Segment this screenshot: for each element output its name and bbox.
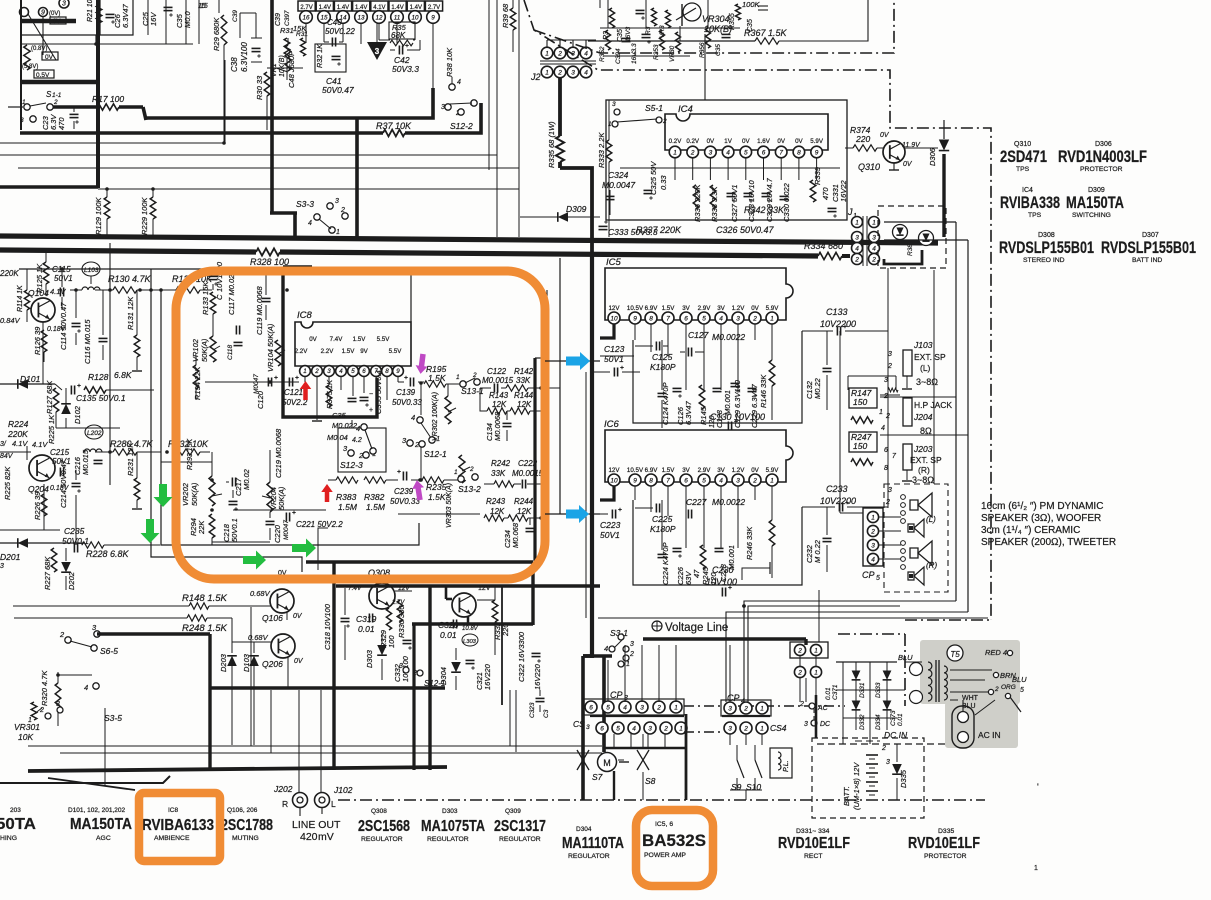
inductor L103 <box>82 262 100 276</box>
svg-text:R29 680K: R29 680K <box>212 17 221 51</box>
wire interconnect L1 <box>744 601 956 702</box>
svg-text:15: 15 <box>200 3 208 10</box>
svg-text:C326 50V0.47: C326 50V0.47 <box>716 225 775 235</box>
svg-text:16: 16 <box>302 14 310 21</box>
svg-text:C371: C371 <box>832 684 839 700</box>
wire VR1 branch <box>287 38 289 44</box>
pilot lamp P.L. <box>770 748 792 778</box>
svg-text:R144: R144 <box>514 391 534 400</box>
svg-text:7: 7 <box>666 477 670 484</box>
svg-text:3V: 3V <box>682 305 690 312</box>
node dot top-left <box>94 42 98 46</box>
jack J103 EXT SP (L) <box>903 350 912 376</box>
svg-text:(L): (L) <box>920 363 931 373</box>
svg-text:50K(A): 50K(A) <box>200 338 209 362</box>
wire J1 to speaker feeds <box>884 221 956 223</box>
svg-text:2: 2 <box>885 499 890 506</box>
wire cluster stubs <box>607 0 609 28</box>
svg-text:10.5V: 10.5V <box>627 305 644 312</box>
svg-text:68K: 68K <box>391 31 406 40</box>
svg-text:D307: D307 <box>1142 232 1159 239</box>
svg-text:EXT. SP: EXT. SP <box>910 455 942 465</box>
svg-text:1.5V: 1.5V <box>353 336 367 343</box>
svg-text:3: 3 <box>630 641 634 648</box>
svg-text:VR104 50K(A): VR104 50K(A) <box>266 323 275 372</box>
svg-text:0V: 0V <box>707 138 715 145</box>
svg-text:0.5V: 0.5V <box>36 72 50 79</box>
wire vertical x=586 <box>585 372 587 618</box>
speaker R tweeter <box>908 567 924 585</box>
wire vertical x=560 mid <box>559 258 561 514</box>
svg-text:5: 5 <box>876 575 880 582</box>
connector J2 row 2 <box>541 66 553 78</box>
wire thick IC6 pin10 lead <box>600 486 614 500</box>
svg-text:4.1V: 4.1V <box>12 439 28 448</box>
svg-text:2: 2 <box>887 363 892 370</box>
wire rows in lower orange <box>161 461 212 463</box>
svg-text:10V2200: 10V2200 <box>820 496 856 506</box>
wire IC5 pin9 riser <box>634 324 636 340</box>
svg-text:C38: C38 <box>230 57 239 72</box>
inductor L303 <box>462 634 478 646</box>
transistor diagonal (top-left) <box>28 14 56 60</box>
wire leads from IC row down <box>305 23 307 42</box>
svg-text:R30 33: R30 33 <box>255 75 264 100</box>
svg-text:3V: 3V <box>682 467 690 474</box>
svg-text:R39 68: R39 68 <box>501 3 510 28</box>
wire medium vertical x=502 <box>501 586 503 705</box>
svg-text:L: L <box>331 799 336 809</box>
svg-text:1.5K: 1.5K <box>428 373 446 383</box>
svg-text:MUTING: MUTING <box>232 835 259 842</box>
svg-text:RVD1N4003LF: RVD1N4003LF <box>1058 148 1147 166</box>
svg-text:REGULATOR: REGULATOR <box>361 836 403 843</box>
svg-text:0V: 0V <box>309 336 317 343</box>
svg-text:+: + <box>369 407 373 414</box>
svg-text:T5: T5 <box>950 650 960 659</box>
test point triangle 3 <box>367 42 387 60</box>
svg-text:22K: 22K <box>197 520 206 535</box>
svg-text:2: 2 <box>870 528 875 535</box>
svg-text:2: 2 <box>743 725 748 732</box>
svg-text:CS: CS <box>573 719 585 729</box>
wire top-left inner verticals <box>147 0 149 35</box>
svg-text:16cm (6¹/₂ ″) PM DYNAMIC: 16cm (6¹/₂ ″) PM DYNAMIC <box>981 501 1103 512</box>
svg-text:D308: D308 <box>1038 232 1055 239</box>
svg-text:M 0.22: M 0.22 <box>813 539 822 563</box>
wire thick CP3 right leg <box>685 714 688 800</box>
switch S8 (cross) <box>637 750 649 770</box>
wire vertical x=225 <box>224 60 226 143</box>
svg-text:6.3V47: 6.3V47 <box>121 3 130 28</box>
extra junction dots <box>590 380 594 384</box>
svg-text:3~8Ω: 3~8Ω <box>912 475 934 485</box>
annotation green arrow down 1 <box>154 484 173 507</box>
connector CP4 row box <box>721 700 771 716</box>
svg-text:1: 1 <box>770 477 774 484</box>
jack J102 L <box>315 793 330 808</box>
svg-text:5: 5 <box>606 704 610 711</box>
annotation magenta arrow up 2 <box>411 479 426 501</box>
svg-text:C239: C239 <box>394 487 414 496</box>
svg-text:6.9V: 6.9V <box>645 467 659 474</box>
svg-text:16V22: 16V22 <box>839 179 848 202</box>
wire thick bus top-left box top <box>20 19 76 24</box>
svg-text:4: 4 <box>881 425 885 432</box>
svg-text:C35: C35 <box>747 19 754 32</box>
svg-text:R334 680: R334 680 <box>804 241 843 251</box>
svg-text:3cm (1¹/₄ ″) CERAMIC: 3cm (1¹/₄ ″) CERAMIC <box>981 525 1080 536</box>
svg-text:mV: mV <box>318 831 334 843</box>
svg-text:4: 4 <box>726 149 730 156</box>
wire pin1 lead + cap C121 <box>260 381 299 383</box>
diode D309 on wire <box>520 216 600 218</box>
svg-text:3: 3 <box>888 487 892 494</box>
svg-text:2: 2 <box>59 630 65 639</box>
wires CP5 to speakers <box>879 516 901 518</box>
svg-text:5.5V: 5.5V <box>377 336 391 343</box>
svg-text:C355 50V0.4: C355 50V0.4 <box>374 370 383 414</box>
svg-text:2: 2 <box>656 704 661 711</box>
svg-text:3: 3 <box>736 315 740 322</box>
wire thick Q309 emitter <box>467 617 470 625</box>
svg-text:16V220: 16V220 <box>533 663 542 690</box>
svg-text:50V0.22: 50V0.22 <box>325 27 355 36</box>
capacitor C26 6.3V47 <box>106 13 115 15</box>
svg-text:1: 1 <box>456 374 460 381</box>
wire Q104 vertical <box>42 322 44 384</box>
connector CP3 row <box>585 701 597 713</box>
connector J1 pin pairs <box>852 217 863 228</box>
svg-text:TPS: TPS <box>1028 212 1042 219</box>
wire thick vertical x=430 <box>428 586 431 770</box>
svg-text:PROTECTOR: PROTECTOR <box>924 853 967 860</box>
svg-text:D332: D332 <box>859 714 866 730</box>
svg-text:4: 4 <box>872 245 876 252</box>
svg-text:R235: R235 <box>426 482 447 492</box>
svg-text:1: 1 <box>760 705 764 712</box>
wire stub verticals near C323 <box>509 690 511 746</box>
svg-text:ORG: ORG <box>1001 684 1016 691</box>
under-IC4 network wires <box>620 167 840 169</box>
svg-text:4.1V: 4.1V <box>50 287 66 296</box>
svg-text:2.9V: 2.9V <box>698 305 712 312</box>
svg-text:50V0.1: 50V0.1 <box>230 518 239 542</box>
transistor top partial <box>683 3 701 21</box>
svg-text:5.9V: 5.9V <box>766 305 780 312</box>
svg-text:C123: C123 <box>604 344 625 354</box>
svg-text:5: 5 <box>351 368 355 375</box>
svg-text:7.4V: 7.4V <box>348 585 362 592</box>
svg-text:C324: C324 <box>608 170 629 180</box>
svg-text:3: 3 <box>399 663 403 670</box>
svg-text:R339: R339 <box>813 166 822 185</box>
svg-text:R142: R142 <box>514 367 534 376</box>
svg-text:12V: 12V <box>478 585 491 592</box>
svg-text:8: 8 <box>649 477 653 484</box>
svg-text:L103: L103 <box>84 267 99 274</box>
svg-text:16V220: 16V220 <box>483 663 492 690</box>
svg-text:2: 2 <box>690 149 695 156</box>
wire y=530 stub <box>0 529 60 531</box>
svg-text:R128: R128 <box>88 372 109 382</box>
svg-text:2: 2 <box>994 686 999 693</box>
svg-text:5: 5 <box>1020 687 1024 694</box>
svg-text:S8: S8 <box>645 776 656 786</box>
svg-text:3: 3 <box>855 234 859 241</box>
under-IC6 vertical extensions <box>685 500 687 548</box>
wire audio feed horizontals <box>28 745 602 747</box>
svg-text:IC6: IC6 <box>604 419 620 430</box>
wire Q310 collector to D306 <box>905 147 938 149</box>
IC8 pins 1..9 <box>300 366 311 377</box>
wire C38 branch <box>239 13 241 38</box>
svg-text:S6-5: S6-5 <box>100 646 118 656</box>
svg-text:M0.022: M0.022 <box>332 421 358 430</box>
svg-text:3: 3 <box>871 542 875 549</box>
svg-text:50TA: 50TA <box>0 816 36 833</box>
wire thick riser x=414 <box>412 624 415 770</box>
wire into C123 under blue arrow 1 <box>545 360 600 362</box>
svg-text:150: 150 <box>853 397 867 407</box>
svg-text:C118: C118 <box>227 345 234 360</box>
svg-text:0V: 0V <box>751 305 759 312</box>
svg-text:1: 1 <box>872 219 876 226</box>
wire thick voltage bus y=639 <box>643 637 806 640</box>
svg-text:50V0.47: 50V0.47 <box>322 85 354 95</box>
wire vertical x=489 <box>488 0 490 170</box>
wire thick y=688 <box>210 686 445 689</box>
svg-text:(5.8V): (5.8V) <box>22 64 38 70</box>
wire thin y=41 with corner up at x=868 <box>588 40 755 42</box>
svg-text:Q310: Q310 <box>858 162 880 172</box>
switch S9 <box>736 745 738 760</box>
svg-text:0V: 0V <box>903 161 913 168</box>
svg-text:Q309: Q309 <box>505 808 521 815</box>
wire interconnect L3 <box>748 606 900 702</box>
svg-text:0V: 0V <box>777 138 785 145</box>
svg-text:C116 M0.015: C116 M0.015 <box>83 319 92 364</box>
wire CP3 verticals up <box>624 645 626 702</box>
resistor R32 1K (boxed) <box>315 44 346 72</box>
svg-text:C329 25V4.7: C329 25V4.7 <box>765 177 774 222</box>
svg-text:3~8Ω: 3~8Ω <box>916 377 938 387</box>
svg-text:10.5V: 10.5V <box>627 467 644 474</box>
svg-text:1: 1 <box>545 69 549 76</box>
bottom middle thick feeds <box>604 747 686 749</box>
wire bus under CP3 <box>590 715 684 717</box>
svg-text:C233: C233 <box>826 484 848 494</box>
inductor L202 <box>85 425 103 439</box>
svg-text:R31: R31 <box>280 26 294 35</box>
wire AC IN leads <box>962 700 964 711</box>
svg-text:RVD10E1LF: RVD10E1LF <box>908 835 980 852</box>
svg-text:1.2V: 1.2V <box>732 305 746 312</box>
svg-text:S3-5: S3-5 <box>104 713 122 723</box>
svg-text:9: 9 <box>815 149 819 156</box>
svg-text:0.84V: 0.84V <box>0 316 21 325</box>
wire C230 down to connector <box>818 590 820 642</box>
svg-text:L202: L202 <box>87 430 102 437</box>
svg-text:C40: C40 <box>327 18 342 27</box>
switch S7 (cross) <box>577 750 589 770</box>
svg-text:0.33: 0.33 <box>659 175 668 190</box>
svg-text:R17 100: R17 100 <box>92 94 124 104</box>
svg-text:BATT.: BATT. <box>842 786 851 806</box>
svg-text:R130 4.7K: R130 4.7K <box>108 274 152 284</box>
wire speaker feed vertical x=956 <box>955 222 957 601</box>
wire medium left bottom <box>0 776 170 783</box>
svg-text:50V1: 50V1 <box>600 530 620 540</box>
svg-text:D201: D201 <box>0 552 21 562</box>
wire thick bus A y=237 <box>0 236 938 243</box>
svg-text:WHT: WHT <box>962 695 979 702</box>
annotation green arrow right 2 <box>292 539 316 558</box>
svg-text:R225 1K: R225 1K <box>47 414 56 444</box>
svg-text:2: 2 <box>752 477 757 484</box>
svg-text:DC: DC <box>820 721 831 728</box>
svg-text:2SC1317: 2SC1317 <box>494 818 546 835</box>
wire S3-5 leads <box>104 708 106 786</box>
wire thick staircase R17 line <box>53 105 97 109</box>
wire thick inner right vertical x=535 <box>533 358 536 562</box>
svg-text:D335: D335 <box>938 828 954 835</box>
svg-text:0.18V: 0.18V <box>47 326 67 333</box>
wire T junction above <box>742 568 770 580</box>
connector CS3 row <box>596 722 608 734</box>
svg-text:(0V): (0V) <box>49 11 60 17</box>
wire dash-dot horizontal y=634 <box>838 633 905 635</box>
wire interconnect L4 <box>598 617 988 619</box>
svg-text:470: 470 <box>821 187 830 200</box>
svg-text:Q106: Q106 <box>262 613 283 623</box>
svg-text:0.68V: 0.68V <box>250 589 271 598</box>
svg-text:D309: D309 <box>566 204 587 214</box>
svg-text:8: 8 <box>884 465 888 472</box>
svg-text:RECT: RECT <box>804 853 823 860</box>
svg-text:9: 9 <box>431 14 435 21</box>
wire thick battery feed <box>815 695 818 738</box>
svg-text:(R): (R) <box>918 465 930 475</box>
svg-text:9V: 9V <box>360 348 368 355</box>
wire thick bottom inside orange <box>306 560 533 564</box>
svg-text:4: 4 <box>584 50 588 57</box>
wire thick upper y=118 <box>146 88 433 118</box>
svg-text:K180P: K180P <box>650 524 676 534</box>
svg-text:(0.8V): (0.8V) <box>31 46 47 52</box>
svg-text:3: 3 <box>335 198 339 205</box>
svg-text:4: 4 <box>855 245 859 252</box>
svg-text:H.P JACK: H.P JACK <box>914 400 952 410</box>
svg-text:3: 3 <box>586 724 590 731</box>
svg-text:C230: C230 <box>712 565 734 575</box>
wire CP4 bus <box>722 715 770 717</box>
svg-text:VR304: VR304 <box>702 14 730 24</box>
wire dash-dot shield upper <box>534 0 894 53</box>
wire thin y=189 <box>98 188 519 190</box>
capacitor C41 50V0.47 <box>332 55 341 57</box>
svg-text:5: 5 <box>702 315 706 322</box>
svg-text:220: 220 <box>855 134 870 144</box>
wire bridge horizontals <box>836 661 897 663</box>
svg-text:R335 68 (1W): R335 68 (1W) <box>547 121 556 168</box>
svg-text:R352: R352 <box>599 46 606 62</box>
wire sub-box around R21/C26 <box>100 0 133 35</box>
wire CS3 verticals <box>613 734 615 748</box>
label Voltage Line with circle-plus <box>652 621 662 631</box>
connector CP3 row box <box>583 699 684 715</box>
svg-text:8: 8 <box>797 149 801 156</box>
svg-text:D304: D304 <box>576 826 592 833</box>
svg-text:RVDSLP155B01: RVDSLP155B01 <box>1101 239 1196 257</box>
svg-text:MA1110TA: MA1110TA <box>562 835 624 852</box>
svg-text:3: 3 <box>640 704 644 711</box>
svg-text:VR202: VR202 <box>181 482 190 506</box>
svg-text:C39: C39 <box>275 13 282 26</box>
svg-text:M0.0: M0.0 <box>183 10 192 28</box>
svg-text:6.3V47: 6.3V47 <box>684 400 693 425</box>
switch S10 <box>754 745 756 760</box>
svg-text:D203: D203 <box>219 653 228 672</box>
svg-text:16V3.3: 16V3.3 <box>631 43 638 64</box>
svg-text:5: 5 <box>702 477 706 484</box>
wire thick IC5 pin10 lead <box>600 324 614 338</box>
svg-text:1: 1 <box>1034 865 1038 872</box>
svg-text:5: 5 <box>616 725 620 732</box>
svg-text:3: 3 <box>571 69 575 76</box>
svg-text:M0.04: M0.04 <box>327 433 348 442</box>
svg-text:D331~ 334: D331~ 334 <box>796 828 830 835</box>
svg-text:2: 2 <box>629 651 634 658</box>
svg-text:M0.0022: M0.0022 <box>712 497 745 507</box>
motor M <box>598 753 617 772</box>
node R31 junction <box>267 67 303 69</box>
node pin 3 circle <box>59 0 69 8</box>
capacitor C239 50V0.33 <box>402 472 404 481</box>
svg-text:6: 6 <box>762 149 766 156</box>
svg-text:47: 47 <box>692 569 701 578</box>
svg-text:2: 2 <box>557 69 562 76</box>
wire thick vertical x=334 <box>332 562 335 770</box>
svg-text:C35: C35 <box>715 44 722 56</box>
IC5 body <box>605 268 793 320</box>
svg-text:2: 2 <box>797 669 802 676</box>
svg-text:1.5K: 1.5K <box>428 492 446 502</box>
svg-text:220K: 220K <box>7 429 28 439</box>
wire dash-dot bottom y=800 <box>338 799 985 801</box>
resistor R35 68K (boxed) <box>389 22 415 39</box>
svg-text:1: 1 <box>674 704 678 711</box>
svg-text:2: 2 <box>871 256 876 263</box>
under-IC5 wires <box>634 324 636 340</box>
svg-text:RVIBA6133: RVIBA6133 <box>142 817 214 834</box>
svg-text:C130 10V100: C130 10V100 <box>710 412 765 422</box>
left lower cluster wires <box>43 352 45 362</box>
svg-text:203: 203 <box>10 807 21 814</box>
svg-text:S7: S7 <box>592 772 603 782</box>
wire left vertical edge <box>20 0 22 130</box>
svg-text:RVDSLP155B01: RVDSLP155B01 <box>999 239 1094 257</box>
svg-text:1: 1 <box>454 469 458 476</box>
svg-text:11: 11 <box>394 14 401 21</box>
wire vertical x=519 <box>518 0 520 237</box>
svg-text:0.01: 0.01 <box>440 630 457 640</box>
svg-text:13: 13 <box>357 14 365 21</box>
wire thick corner into CP connector <box>804 639 807 645</box>
svg-text:R148 1.5K: R148 1.5K <box>182 593 228 604</box>
svg-text:S12-2: S12-2 <box>450 121 473 131</box>
svg-text:33K: 33K <box>516 376 531 385</box>
